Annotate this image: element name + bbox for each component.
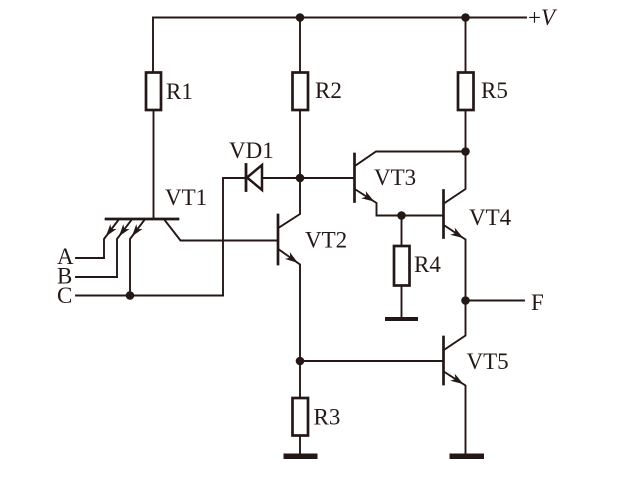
wire: +V power rail [153, 18, 526, 73]
svg-text:VT4: VT4 [469, 205, 512, 230]
resistor R1 [146, 73, 161, 111]
transistor VT2 [277, 215, 280, 264]
node: VT2 emitter / R3 / VT5 base junction [296, 357, 305, 366]
wire: R4 bottom to ground [401, 286, 403, 317]
svg-text:R2: R2 [315, 78, 342, 103]
ground (R4) [385, 317, 418, 321]
wire: node to R4 top [401, 216, 403, 247]
svg-text:C: C [57, 283, 72, 308]
resistor R4 [394, 246, 410, 286]
node: C line / emitter 3 junction [126, 291, 135, 300]
svg-text:VT1: VT1 [165, 185, 207, 210]
wire: node to R3 top [299, 361, 301, 398]
node: VT4 emitter / F / VT5 collector junction [461, 296, 470, 305]
node: VT3 emitter / R4 junction [397, 211, 406, 220]
wire: R3 bottom to ground [299, 436, 301, 454]
svg-text:+V: +V [528, 5, 558, 30]
transistor VT4 [442, 191, 445, 238]
VT2 emitter [279, 250, 300, 362]
resistor R5 [458, 73, 474, 111]
wire: output F [466, 300, 525, 302]
svg-text:VT3: VT3 [374, 165, 416, 190]
VT4 collector [445, 152, 466, 204]
input B: wire and label [76, 276, 117, 278]
VT1 collector + wire to VT2 base [165, 221, 278, 241]
ground (VT5) [450, 454, 485, 460]
input C: wire and label [76, 295, 223, 297]
wire: node to VT5 base [300, 360, 444, 362]
wire: rail to R5 top [465, 18, 467, 73]
wire: node to VT3 base [300, 177, 355, 179]
VT5 collector [445, 301, 466, 350]
wire: rail to R2 top [299, 18, 301, 73]
VT1 emitter 1 [104, 221, 118, 259]
node: rail / R2 junction [296, 13, 305, 22]
VT5 emitter + wire to ground [445, 372, 466, 453]
svg-text:R4: R4 [414, 252, 441, 277]
ground (R3) [284, 454, 318, 460]
VT3 collector + wire to node [356, 152, 466, 166]
svg-text:R5: R5 [481, 78, 508, 103]
node: VT3 collector / R5 / VT4 collector junction [461, 147, 470, 156]
transistor VT3 [353, 154, 356, 202]
transistor VT5 [442, 337, 445, 384]
svg-text:R1: R1 [166, 79, 193, 104]
VT2 collector [279, 178, 300, 228]
wire: C line up to VD1 cathode [223, 178, 245, 296]
svg-text:VD1: VD1 [229, 138, 274, 163]
VT1 emitter 2 [117, 221, 131, 278]
VT3 emitter + wire to VT4 base [356, 190, 444, 216]
svg-text:F: F [531, 290, 544, 315]
resistor R3 [293, 398, 309, 436]
input A: wire and label [76, 257, 104, 259]
wire: R1 bottom to VT1 base [153, 110, 155, 218]
VT4 emitter [445, 226, 466, 301]
transistor VT1 (multi-emitter) base bar [106, 218, 178, 221]
resistor R2 [293, 73, 309, 111]
wire: R5 bottom to VT3 collector node [465, 110, 467, 152]
svg-text:VT5: VT5 [467, 349, 509, 374]
node: VD1 / R2 / VT2 collector junction [296, 174, 305, 183]
VT1 emitter 3 [130, 221, 144, 296]
svg-text:VT2: VT2 [305, 228, 347, 253]
node: rail / R5 junction [461, 13, 470, 22]
diode VD1 [245, 165, 248, 191]
wire: R2 bottom to node [299, 110, 301, 178]
svg-text:R3: R3 [314, 405, 341, 430]
